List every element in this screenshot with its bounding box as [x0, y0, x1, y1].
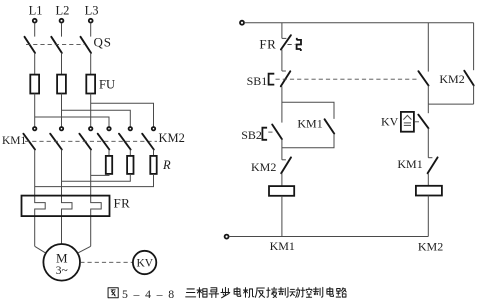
- wire feed phase2 to KM2 pole2: [62, 110, 131, 127]
- caption char zhi2 (制): [314, 287, 323, 297]
- wire QS to FU phase2: [61, 53, 63, 75]
- switch QS pole 1 blade: [25, 37, 36, 53]
- SB2 bracket dash: [268, 131, 273, 133]
- svg-text:L3: L3: [85, 3, 99, 17]
- bottom terminal: [225, 235, 229, 239]
- wire KV to KM1 NC: [427, 128, 429, 158]
- KM1 pole3 blade: [79, 134, 91, 150]
- KM1 NC tick: [428, 157, 432, 159]
- svg-text:KM2: KM2: [439, 72, 464, 86]
- svg-text:KM2: KM2: [418, 239, 443, 253]
- terminal L1: [33, 19, 37, 23]
- wire FU2 down to KM1 pole2: [61, 94, 63, 128]
- svg-text:L2: L2: [55, 3, 69, 17]
- caption char xiang (相): [197, 288, 207, 298]
- SB1 NC tick: [282, 70, 286, 72]
- svg-text:KM1: KM1: [397, 157, 422, 171]
- svg-text:SB1: SB1: [247, 74, 268, 88]
- svg-text:KV: KV: [381, 115, 399, 129]
- svg-text:KM2: KM2: [159, 131, 185, 145]
- caption char jie (接): [267, 287, 277, 297]
- KM1 selfhold NO blade: [325, 119, 335, 133]
- svg-text:KM1: KM1: [2, 135, 27, 147]
- KM2 pole2 fixed contact: [129, 127, 132, 130]
- SB2 pushbutton bracket: [262, 128, 267, 140]
- SB2 NO blade: [272, 125, 282, 140]
- coil KM2: [416, 186, 442, 196]
- wire KM2 selfhold down: [473, 85, 475, 104]
- switch QS pole 3 blade: [81, 37, 92, 53]
- KM1 pole2 blade: [50, 134, 62, 150]
- KM2 pole1 blade: [98, 134, 110, 150]
- wire feed phase1 to KM2 pole1: [35, 117, 109, 127]
- SB1 pushbutton bracket: [269, 74, 275, 85]
- svg-text:KM1: KM1: [270, 239, 295, 253]
- KM1 pole3 fixed contact: [89, 127, 92, 130]
- caption char lu (路): [336, 288, 346, 297]
- wire feed phase3 to KM2 pole3: [91, 103, 154, 127]
- KM2 pole3 fixed contact: [152, 127, 155, 130]
- wire KM1 NC to KM2 coil: [427, 173, 429, 186]
- svg-text:3~: 3~: [56, 265, 68, 277]
- wire R3 return to phase1 column: [35, 174, 154, 187]
- resistor R3: [150, 156, 156, 174]
- caption char tu (图): [108, 288, 118, 298]
- switch QS pole 2 blade: [51, 37, 62, 53]
- KM1 pole1 blade: [23, 134, 35, 150]
- caption char zhi (制): [279, 287, 288, 297]
- fuse FU 2: [57, 75, 66, 94]
- fuse FU 1: [30, 75, 39, 94]
- svg-text:SB2: SB2: [241, 128, 262, 142]
- top rail wire: [244, 22, 473, 24]
- coil KM1: [269, 186, 294, 196]
- svg-text:L1: L1: [29, 3, 43, 17]
- wire junction to KV contact: [427, 104, 429, 113]
- FR contact dash to hook: [288, 44, 296, 46]
- wire KM2 NC to KM1 coil: [281, 173, 283, 186]
- wire KM1 coil to bottom rail: [281, 196, 283, 237]
- caption char san (三): [186, 289, 196, 297]
- svg-text:R: R: [162, 158, 171, 172]
- svg-text:KM1: KM1: [297, 117, 322, 131]
- KM1 NC blade: [428, 157, 438, 173]
- resistor R2: [127, 156, 133, 174]
- svg-text:KV: KV: [136, 258, 153, 270]
- wire KM1 pole3 down with FR heater 3: [91, 150, 102, 247]
- wire rail to SB1-linked KM2 contact: [427, 23, 429, 72]
- SB1 NC blade: [281, 71, 291, 86]
- KM2 pole1 fixed contact: [107, 127, 110, 130]
- caption char bu (步): [221, 287, 230, 297]
- FR contact hook symbol: [297, 38, 301, 51]
- wire KM2 coil to bottom rail: [427, 196, 429, 237]
- junction horizontal wire: [428, 103, 473, 105]
- wire rail to FR contact: [281, 23, 283, 39]
- FR NC contact blade: [281, 35, 291, 49]
- KM2 NC blade: [281, 157, 291, 173]
- KM1-KM2 linkage dashed: [25, 140, 157, 142]
- caption char kong (控): [301, 288, 312, 298]
- svg-text:KM2: KM2: [251, 160, 276, 174]
- wire FU1 down to KM1 pole1: [34, 94, 36, 128]
- wire rail to KM2 selfhold: [473, 23, 475, 70]
- terminal L3: [89, 19, 93, 23]
- svg-text:FU: FU: [99, 78, 115, 92]
- motor lead left diagonal: [35, 246, 46, 253]
- KV box bar 2: [404, 124, 411, 126]
- KV box caret: [403, 115, 411, 119]
- dashed link motor to KV: [80, 261, 132, 263]
- wire KM2 pole1 to R1: [108, 150, 110, 156]
- wire FR to SB1: [281, 50, 283, 72]
- svg-text:M: M: [56, 250, 68, 265]
- KM1 pole1 fixed contact: [33, 127, 36, 130]
- motor M circle: [43, 244, 80, 281]
- KM2 NC tick: [282, 159, 286, 161]
- wire QS to FU phase3: [90, 53, 92, 75]
- wire contact to junction: [427, 86, 429, 105]
- KM2 pole3 blade: [142, 134, 154, 150]
- wire FU3 down to KM1 pole3: [90, 94, 92, 128]
- FR box: [22, 196, 110, 217]
- FR NC contact tick: [282, 37, 287, 39]
- wire SB1 to SB2: [281, 86, 283, 122]
- KM2 pole2 blade: [119, 134, 131, 150]
- caption char dong (动): [290, 288, 300, 297]
- wire R2 return to phase2 column: [62, 174, 131, 181]
- wire KM1 pole2 down with FR heater 2: [62, 150, 73, 245]
- terminal L2: [60, 19, 64, 23]
- KM1 selfhold branch top: [282, 102, 334, 119]
- KM1 pole2 fixed contact: [60, 127, 63, 130]
- QS linkage dashed: [26, 44, 84, 46]
- KM2 selfhold NO blade: [464, 71, 473, 86]
- wire R1 return to phase3 column: [91, 174, 109, 176]
- wire L1 to QS: [34, 23, 36, 37]
- wire L3 to QS: [90, 23, 92, 37]
- caption char yi (异): [209, 288, 218, 298]
- wire L2 to QS: [61, 23, 63, 37]
- wire KM1 pole1 down with FR heater 1: [35, 150, 46, 247]
- svg-text:5 – 4 – 8: 5 – 4 – 8: [122, 287, 175, 301]
- svg-text:FR: FR: [114, 196, 131, 211]
- wire KM2 pole3 to R3: [153, 150, 155, 156]
- caption char dian2 (电): [327, 287, 334, 296]
- SB1-linked NO blade: [418, 71, 428, 85]
- bottom rail wire: [229, 236, 428, 238]
- motor lead right diagonal: [78, 246, 91, 253]
- caption char ji (机): [243, 288, 253, 298]
- resistor R1: [106, 156, 112, 174]
- svg-text:QS: QS: [94, 34, 112, 49]
- top terminal: [240, 21, 244, 25]
- KV relay box: [401, 112, 414, 132]
- wire QS to FU phase1: [34, 53, 36, 75]
- KV box dash to blade: [415, 121, 420, 123]
- SB1 to KM2 linkage dashed: [276, 78, 419, 80]
- wire SB2 to KM2 NC: [281, 139, 283, 160]
- KV box bar 1: [404, 122, 411, 124]
- caption char dian (电): [234, 287, 241, 296]
- KM1 selfhold branch bottom: [282, 134, 334, 148]
- caption char fan (反): [255, 288, 264, 297]
- svg-text:FR: FR: [259, 37, 276, 52]
- fuse FU 3: [86, 75, 95, 94]
- wire KM2 pole2 to R2: [129, 150, 131, 156]
- KV relay circle: [133, 251, 156, 274]
- KV NO blade: [418, 115, 428, 129]
